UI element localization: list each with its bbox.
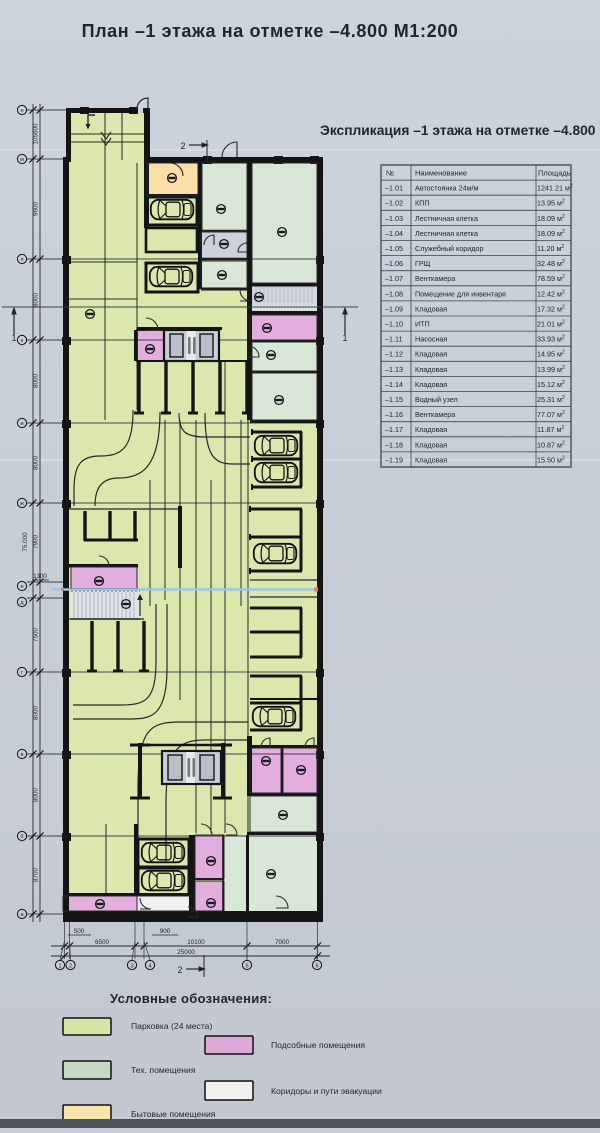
- car 7: [142, 843, 185, 863]
- svg-text:г: г: [21, 670, 23, 676]
- svg-text:Венткамера: Венткамера: [415, 274, 455, 283]
- room KPP mint B1: [202, 163, 247, 231]
- stalls s7: [250, 607, 302, 610]
- room mint C5: [252, 373, 317, 420]
- svg-text:11.20 м2: 11.20 м2: [537, 244, 564, 253]
- room pink column J: [195, 835, 224, 879]
- svg-text:25.31 м2: 25.31 м2: [537, 395, 565, 404]
- svg-text:15.50 м2: 15.50 м2: [537, 455, 565, 464]
- svg-text:Лестничная клетка: Лестничная клетка: [415, 229, 478, 238]
- svg-text:м: м: [20, 157, 24, 163]
- svg-text:–1.08: –1.08: [385, 289, 403, 298]
- outer walls: [66, 108, 138, 113]
- svg-text:–1.07: –1.07: [385, 274, 403, 283]
- room mint C4: [252, 342, 317, 371]
- svg-text:Кладовая: Кладовая: [415, 350, 447, 359]
- svg-text:77.07 м2: 77.07 м2: [537, 410, 565, 419]
- svg-text:21.01 м2: 21.01 м2: [537, 320, 565, 329]
- section mark 1 left: [2, 306, 358, 308]
- svg-text:8000: 8000: [33, 456, 40, 471]
- svg-text:–1.01: –1.01: [385, 184, 403, 193]
- svg-text:ГРЩ: ГРЩ: [415, 259, 431, 268]
- svg-text:8000: 8000: [33, 374, 40, 389]
- svg-text:е: е: [20, 584, 23, 590]
- axis circles left: [17, 105, 26, 114]
- legend byt: [63, 1105, 111, 1123]
- svg-text:75.000: 75.000: [22, 532, 29, 552]
- left dimension lines: [32, 104, 34, 922]
- storage block walls: [83, 511, 86, 541]
- svg-text:9600: 9600: [33, 202, 40, 217]
- room pink right pair: [250, 748, 281, 793]
- interior walls: [144, 162, 149, 228]
- top wall door arc: [222, 142, 237, 157]
- legend parking: [63, 1018, 111, 1035]
- svg-text:10100: 10100: [187, 939, 205, 946]
- svg-text:Венткамера: Венткамера: [415, 410, 455, 419]
- svg-text:–1.16: –1.16: [385, 410, 403, 419]
- door arcs: [170, 163, 183, 176]
- svg-text:13.99 м2: 13.99 м2: [537, 365, 565, 374]
- svg-text:Кладовая: Кладовая: [415, 365, 447, 374]
- svg-text:План –1 этажа на отметке –4.80: План –1 этажа на отметке –4.800 М1:200: [82, 21, 459, 41]
- stall s1: [146, 197, 197, 225]
- svg-text:2: 2: [177, 965, 182, 975]
- svg-text:Насосная: Насосная: [415, 335, 447, 344]
- svg-text:1300: 1300: [33, 573, 47, 580]
- section mark 1 right: [344, 311, 346, 335]
- svg-text:14.95 м2: 14.95 м2: [537, 350, 565, 359]
- room pink strip K: [63, 896, 137, 911]
- svg-text:5: 5: [245, 963, 248, 969]
- room mint big I: [247, 835, 317, 911]
- svg-text:н: н: [20, 108, 23, 114]
- stair arrow: [139, 596, 141, 616]
- svg-text:КПП: КПП: [415, 199, 430, 208]
- room tags: [168, 174, 177, 183]
- inventory grey C2: [250, 286, 317, 305]
- svg-text:13.95 м2: 13.95 м2: [537, 199, 565, 208]
- explication table: [381, 165, 571, 467]
- svg-text:1: 1: [11, 333, 16, 343]
- svg-text:Автостоянка 24м/м: Автостоянка 24м/м: [415, 184, 479, 193]
- car 1: [151, 200, 194, 220]
- svg-text:1: 1: [342, 333, 347, 343]
- svg-text:8000: 8000: [33, 788, 40, 803]
- svg-text:№: №: [386, 169, 394, 178]
- svg-text:Кладовая: Кладовая: [415, 455, 447, 464]
- car 5: [254, 544, 296, 564]
- svg-text:Помещение для инвентаря: Помещение для инвентаря: [415, 289, 506, 298]
- svg-text:3: 3: [130, 963, 133, 969]
- svg-text:Бытовые помещения: Бытовые помещения: [131, 1109, 216, 1119]
- service corridor: [201, 232, 247, 259]
- section line blue: [52, 588, 317, 590]
- svg-text:33.93 м2: 33.93 м2: [537, 335, 565, 344]
- svg-text:Коридоры и пути эвакуации: Коридоры и пути эвакуации: [271, 1086, 382, 1096]
- svg-text:15.12 м2: 15.12 м2: [537, 380, 565, 389]
- svg-text:–1.02: –1.02: [385, 199, 403, 208]
- svg-text:Парковка (24 места): Парковка (24 места): [131, 1021, 212, 1031]
- stairs F: [71, 590, 140, 620]
- car 4: [255, 463, 297, 483]
- svg-text:6: 6: [315, 963, 318, 969]
- svg-text:7000: 7000: [275, 939, 290, 946]
- svg-text:18.09 м2: 18.09 м2: [537, 214, 565, 223]
- svg-text:–1.09: –1.09: [385, 304, 403, 313]
- legend utility: [205, 1036, 253, 1054]
- axis circles bottom: [60, 941, 65, 960]
- elevator core top: [137, 327, 222, 330]
- wall piers: [80, 107, 89, 114]
- car 3: [255, 436, 297, 456]
- svg-text:Водный узел: Водный узел: [415, 395, 458, 404]
- escape corridor L: [137, 896, 195, 911]
- svg-text:–1.13: –1.13: [385, 365, 403, 374]
- stalls s4 s5: [252, 431, 302, 434]
- svg-text:32.48 м2: 32.48 м2: [537, 259, 565, 268]
- svg-text:л: л: [20, 257, 23, 263]
- ramp arrow: [88, 115, 95, 125]
- svg-text:1: 1: [58, 963, 61, 969]
- svg-text:–1.03: –1.03: [385, 214, 403, 223]
- svg-text:8000: 8000: [33, 293, 40, 308]
- svg-text:–1.10: –1.10: [385, 320, 403, 329]
- svg-text:8000: 8000: [33, 706, 40, 721]
- svg-text:4: 4: [148, 963, 151, 969]
- svg-text:–1.18: –1.18: [385, 440, 403, 449]
- svg-text:Экспликация –1 этажа на отметк: Экспликация –1 этажа на отметке –4.800: [320, 123, 596, 138]
- svg-text:105600: 105600: [33, 123, 40, 145]
- lane curves: [74, 410, 133, 506]
- svg-text:Кладовая: Кладовая: [415, 440, 447, 449]
- svg-text:Лестничная клетка: Лестничная клетка: [415, 214, 478, 223]
- svg-text:и: и: [20, 421, 23, 427]
- room pink C3: [250, 315, 317, 340]
- svg-text:18.09 м2: 18.09 м2: [537, 229, 565, 238]
- svg-text:11.87 м2: 11.87 м2: [537, 425, 564, 434]
- room pink E: [71, 567, 137, 589]
- room pink D: [137, 330, 164, 361]
- ventkamera mint C1: [252, 163, 317, 283]
- svg-text:8700: 8700: [33, 868, 40, 883]
- svg-text:Площадь: Площадь: [538, 169, 571, 178]
- svg-text:–1.14: –1.14: [385, 380, 403, 389]
- room mint G: [250, 796, 317, 832]
- room mint strip H: [224, 835, 247, 911]
- svg-text:–1.12: –1.12: [385, 350, 403, 359]
- svg-text:Условные обозначения:: Условные обозначения:: [110, 991, 272, 1006]
- svg-text:Тех. помещения: Тех. помещения: [131, 1065, 196, 1075]
- svg-text:7900: 7900: [33, 535, 40, 550]
- svg-text:7500: 7500: [33, 628, 40, 643]
- stall s2: [146, 228, 197, 252]
- stall s9: [138, 839, 189, 867]
- bottom rooms walls: [134, 824, 138, 895]
- svg-text:6500: 6500: [95, 939, 110, 946]
- bottom dark bar: [0, 1119, 600, 1128]
- svg-text:1241.21 м2: 1241.21 м2: [537, 184, 573, 193]
- svg-text:10.87 м2: 10.87 м2: [537, 440, 565, 449]
- bottom dimension lines: [51, 945, 330, 947]
- room mint B2: [201, 261, 247, 289]
- svg-text:17.32 м2: 17.32 м2: [537, 304, 565, 313]
- stalls s6: [250, 508, 302, 511]
- svg-text:Кладовая: Кладовая: [415, 380, 447, 389]
- axis grid lines: [27, 258, 317, 260]
- svg-text:900: 900: [160, 928, 171, 935]
- svg-text:Кладовая: Кладовая: [415, 425, 447, 434]
- elevator core bottom: [138, 743, 142, 798]
- svg-text:–1.05: –1.05: [385, 244, 403, 253]
- svg-text:12.42 м2: 12.42 м2: [537, 289, 565, 298]
- room byt (orange): [147, 163, 198, 196]
- ramp interior: [71, 113, 144, 163]
- entry door arc: [137, 98, 148, 109]
- svg-text:500: 500: [74, 928, 85, 935]
- legend corridors: [205, 1081, 253, 1100]
- svg-text:78.59 м2: 78.59 м2: [537, 274, 565, 283]
- stall s3: [146, 263, 198, 292]
- car 6: [253, 707, 295, 727]
- svg-text:–1.17: –1.17: [385, 425, 403, 434]
- lane lines: [104, 113, 106, 420]
- legend tech: [63, 1061, 111, 1079]
- ramp break line: [71, 133, 144, 135]
- svg-text:Подсобные помещения: Подсобные помещения: [271, 1040, 365, 1050]
- svg-text:–1.04: –1.04: [385, 229, 403, 238]
- stall s10: [138, 868, 189, 895]
- svg-text:в: в: [21, 752, 24, 758]
- stalls s8: [250, 675, 302, 678]
- svg-text:–1.15: –1.15: [385, 395, 403, 404]
- svg-text:–1.19: –1.19: [385, 455, 403, 464]
- svg-text:ИТП: ИТП: [415, 320, 430, 329]
- svg-text:Наименование: Наименование: [415, 169, 467, 178]
- parking interior: [69, 162, 317, 912]
- svg-text:25000: 25000: [177, 949, 195, 956]
- svg-text:б: б: [20, 834, 23, 840]
- svg-text:–1.06: –1.06: [385, 259, 403, 268]
- car 2: [150, 267, 193, 287]
- svg-text:–1.11: –1.11: [385, 335, 402, 344]
- svg-text:2: 2: [180, 141, 185, 151]
- svg-text:Служебный коридор: Служебный коридор: [415, 244, 483, 253]
- svg-text:ж: ж: [20, 501, 24, 507]
- svg-text:2: 2: [69, 963, 72, 969]
- car 8: [142, 871, 185, 891]
- svg-text:Кладовая: Кладовая: [415, 304, 447, 313]
